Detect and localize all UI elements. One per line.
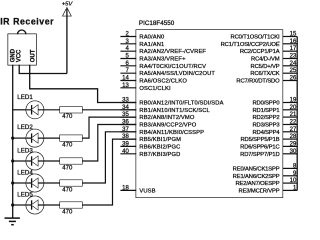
svg-text:RB1/AN10/INT1/SCK/SCL: RB1/AN10/INT1/SCK/SCL: [139, 108, 210, 114]
wire LED2 to resistor: [44, 137, 60, 139]
wire LED3 to resistor: [44, 160, 60, 162]
pin 40 RB7/KBI3/PGD (left): [120, 149, 180, 158]
svg-text:27: 27: [290, 127, 297, 133]
svg-text:RB4/AN11/KBI0/CSSPP: RB4/AN11/KBI0/CSSPP: [139, 130, 204, 136]
LED5: [13, 196, 44, 213]
pin 2 RA0/AN0 (left): [120, 32, 164, 41]
svg-text:RC5/D+/VP: RC5/D+/VP: [251, 64, 280, 70]
svg-text:16: 16: [290, 39, 297, 45]
pin 13 OSC1/CLKI (left): [120, 83, 171, 92]
svg-text:13: 13: [122, 83, 129, 89]
svg-text:RB2/AN8/INT2/VMO: RB2/AN8/INT2/VMO: [139, 115, 194, 121]
wire R4 to pin 37: [82, 132, 136, 183]
svg-text:20: 20: [290, 105, 297, 111]
pin 33 RB0/AN12/INT0/FLT0/SDI/SDA (left): [120, 98, 223, 107]
pin 25 RC6/TX/CK (right): [250, 68, 297, 77]
svg-text:15: 15: [290, 32, 297, 38]
resistor R2: [60, 135, 82, 141]
svg-text:40: 40: [122, 149, 129, 155]
pin 38 RB5/KBI1/PGM (left): [120, 134, 181, 143]
pin 9 RE1/AN6/CK2SPP (right): [233, 171, 298, 180]
svg-text:RA5/AN4/SS/LVDIN/C2OUT: RA5/AN4/SS/LVDIN/C2OUT: [139, 71, 215, 77]
pin 16 RC1/T1OSI/CCP2/UOE (right): [221, 39, 298, 48]
svg-text:RB0/AN12/INT0/FLT0/SDI/SDA: RB0/AN12/INT0/FLT0/SDI/SDA: [139, 101, 223, 107]
svg-text:23: 23: [290, 54, 297, 60]
svg-text:PIC18F4550: PIC18F4550: [139, 20, 175, 27]
svg-text:RC4/D-/VM: RC4/D-/VM: [251, 57, 280, 63]
pin 1 RE3/MCLR/VPP (right): [239, 185, 298, 194]
pin 23 RC4/D-/VM (right): [251, 54, 297, 63]
svg-text:RB5/KBI1/PGM: RB5/KBI1/PGM: [139, 137, 181, 143]
pin 37 RB4/AN11/KBI0/CSSPP (left): [120, 127, 204, 136]
IR receiver module U2 body: [8, 30, 36, 65]
svg-text:LED4: LED4: [17, 170, 33, 177]
svg-text:OSC1/CLKI: OSC1/CLKI: [139, 86, 171, 92]
pin 19 RD0/SPP0 (right): [253, 98, 298, 107]
pin 8 RE0/AN5/CK1SPP (right): [233, 163, 298, 172]
svg-text:29: 29: [290, 141, 297, 147]
svg-text:19: 19: [290, 98, 297, 104]
svg-text:26: 26: [290, 76, 297, 82]
pin 17 RC2/CCP1/P1A (right): [240, 46, 297, 55]
svg-text:RD4/SPP4: RD4/SPP4: [253, 130, 281, 136]
svg-text:10: 10: [290, 178, 297, 184]
junction node on GND bus (LED3): [11, 159, 14, 162]
junction node on GND bus (LED5): [11, 203, 14, 206]
pin 28 RD5/SPP5/P1B (right): [240, 134, 297, 143]
wire +5V down to VCC junction: [66, 9, 68, 74]
LED1: [13, 101, 44, 118]
pin 35 RB2/AN8/INT2/VMO (left): [120, 112, 194, 121]
svg-text:470: 470: [62, 165, 73, 171]
svg-text:LED5: LED5: [17, 192, 33, 199]
svg-text:LED1: LED1: [17, 94, 33, 101]
resistor R1: [60, 107, 82, 113]
pin 15 RC0/T1OSO/T1CKI (right): [231, 32, 298, 41]
pin 26 RC7/RX/DT/SDO (right): [236, 76, 297, 85]
LED2: [13, 129, 44, 146]
svg-text:RD1/SPP1: RD1/SPP1: [253, 108, 280, 114]
pin 36 RB3/AN9/CCP2/VPO (left): [120, 120, 196, 129]
svg-text:RE1/AN6/CK2SPP: RE1/AN6/CK2SPP: [233, 174, 280, 180]
svg-text:RA3/AN3/VREF+: RA3/AN3/VREF+: [139, 57, 186, 63]
resistor R4: [60, 180, 82, 186]
svg-text:21: 21: [290, 112, 297, 118]
svg-text:RC2/CCP1/P1A: RC2/CCP1/P1A: [240, 49, 280, 55]
svg-text:RB3/AN9/CCP2/VPO: RB3/AN9/CCP2/VPO: [139, 123, 196, 129]
svg-text:RE3/MCLR/VPP: RE3/MCLR/VPP: [239, 188, 280, 194]
svg-text:RA4/T0CKI/C1OUT/RCV: RA4/T0CKI/C1OUT/RCV: [139, 64, 206, 70]
svg-text:RD2/SPP2: RD2/SPP2: [253, 115, 280, 121]
+5V power symbol: [62, 2, 74, 16]
LED4: [13, 174, 44, 191]
wire OUT pin to RB0 pin 33: [30, 65, 137, 103]
wire LED4 to resistor: [44, 182, 60, 184]
pin 7 RA5/AN4/SS/LVDIN/C2OUT (left): [120, 68, 215, 77]
junction node on GND bus (LED2): [11, 137, 14, 140]
svg-text:RC0/T1OSO/T1CKI: RC0/T1OSO/T1CKI: [231, 35, 280, 41]
svg-text:LED3: LED3: [17, 148, 33, 155]
svg-text:RE2/AN7/OESPP: RE2/AN7/OESPP: [235, 181, 279, 187]
svg-text:RD3/SPP3: RD3/SPP3: [253, 123, 280, 129]
wire LED5 to resistor: [44, 204, 60, 206]
wire R5 to pin 38: [82, 139, 136, 205]
svg-text:28: 28: [290, 134, 297, 140]
wire R3 to pin 36: [82, 125, 136, 162]
svg-text:RD7/SPP7/P1D: RD7/SPP7/P1D: [240, 152, 279, 158]
svg-text:22: 22: [290, 120, 297, 126]
pin 27 RD4/SPP4 (right): [253, 127, 298, 136]
pin 20 RD1/SPP1 (right): [253, 105, 298, 114]
svg-text:RD0/SPP0: RD0/SPP0: [253, 101, 280, 107]
pin 18 VUSB (left): [120, 185, 155, 194]
LED3: [13, 152, 44, 169]
svg-text:VUSB: VUSB: [139, 188, 155, 194]
svg-text:24: 24: [290, 61, 297, 67]
wire R2 to pin 35: [82, 117, 136, 138]
svg-text:470: 470: [62, 143, 73, 149]
op IC U1 PIC18F4550 body: [136, 30, 282, 197]
resistor R5: [60, 202, 82, 208]
svg-text:OUT: OUT: [30, 49, 36, 62]
svg-text:RB7/KBI3/PGD: RB7/KBI3/PGD: [139, 152, 180, 158]
svg-text:30: 30: [290, 149, 297, 155]
pin 10 RE2/AN7/OESPP (right): [235, 178, 297, 187]
wire LED1 to resistor: [44, 109, 60, 111]
pin 14 RA6/OSC2/CLKO (left): [120, 76, 187, 85]
svg-text:LED2: LED2: [17, 124, 33, 131]
pin 22 RD3/SPP3 (right): [253, 120, 298, 129]
svg-text:39: 39: [122, 141, 129, 147]
svg-text:RC7/RX/DT/SDO: RC7/RX/DT/SDO: [236, 79, 280, 85]
svg-text:+5V: +5V: [62, 2, 74, 8]
svg-text:470: 470: [62, 187, 73, 193]
svg-text:RA1/AN1: RA1/AN1: [139, 42, 164, 48]
svg-text:RA0/AN0: RA0/AN0: [139, 35, 164, 41]
pin 3 RA1/AN1 (left): [120, 39, 164, 48]
pin 39 RB6/KBI2/PGC (left): [120, 141, 180, 150]
svg-text:IR Receiver: IR Receiver: [0, 17, 54, 27]
svg-text:VCC: VCC: [17, 49, 23, 62]
svg-text:RA2/AN2/VREF-/CVREF: RA2/AN2/VREF-/CVREF: [139, 49, 206, 55]
svg-text:RE0/AN5/CK1SPP: RE0/AN5/CK1SPP: [233, 166, 280, 172]
wire right-side vertical bus: [296, 37, 298, 191]
svg-text:18: 18: [122, 185, 129, 191]
wire VCC pin to +5V rail: [19, 65, 67, 74]
svg-text:RA6/OSC2/CLKO: RA6/OSC2/CLKO: [139, 79, 187, 85]
pin 34 RB1/AN10/INT1/SCK/SCL (left): [120, 105, 210, 114]
svg-text:470: 470: [62, 114, 73, 120]
svg-text:RD5/SPP5/P1B: RD5/SPP5/P1B: [240, 137, 279, 143]
svg-text:470: 470: [62, 209, 73, 215]
pin 4 RA2/AN2/VREF-/CVREF (left): [120, 46, 206, 55]
svg-text:RD6/SPP6/P1C: RD6/SPP6/P1C: [240, 144, 279, 150]
pin 21 RD2/SPP2 (right): [253, 112, 298, 121]
pin 29 RD6/SPP6/P1C (right): [240, 141, 297, 150]
svg-text:RC1/T1OSI/CCP2/UOE: RC1/T1OSI/CCP2/UOE: [221, 42, 280, 48]
junction node on GND bus (LED4): [11, 181, 14, 184]
svg-text:17: 17: [290, 46, 297, 52]
svg-text:RC6/TX/CK: RC6/TX/CK: [250, 71, 279, 77]
wire R1 to pin 34: [82, 109, 136, 111]
ground symbol: [5, 218, 20, 225]
pin 5 RA3/AN3/VREF+ (left): [120, 54, 186, 63]
pin 24 RC5/D+/VP (right): [251, 61, 298, 70]
svg-text:25: 25: [290, 68, 297, 74]
resistor R3: [60, 158, 82, 164]
pin 6 RA4/T0CKI/C1OUT/RCV (left): [120, 61, 206, 70]
wire GND bus (left vertical): [12, 65, 14, 218]
pin 30 RD7/SPP7/P1D (right): [240, 149, 297, 158]
svg-text:14: 14: [122, 76, 129, 82]
svg-text:RB6/KBI2/PGC: RB6/KBI2/PGC: [139, 144, 180, 150]
